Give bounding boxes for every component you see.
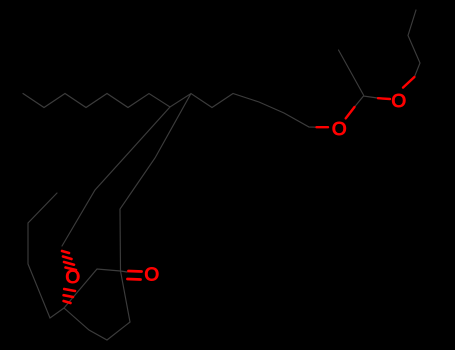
svg-text:O: O <box>332 119 348 141</box>
svg-text:O: O <box>144 264 160 286</box>
wire: ring left edge path <box>28 193 64 318</box>
svg-text:O: O <box>65 267 81 289</box>
wire: ring edge B from chain apex down to junction W and lower vertex <box>120 94 191 323</box>
wire: bond O1 to acetal carbon V1 (carbon half) <box>355 96 378 107</box>
wire: ring bottom vee <box>64 308 130 340</box>
wire: ethyl/methyl branch on acetal carbon V1 <box>339 50 364 95</box>
wire: O1-V1 bond red half <box>346 107 355 118</box>
wire: ketone C=O upper line <box>129 270 142 273</box>
wire: ketone C=O lower line <box>128 278 141 281</box>
wire: alkyl chain zigzag C1-C14 <box>23 94 316 128</box>
hashed stereo bond ring O to V_dn <box>64 289 75 291</box>
wire: ring edge A from chain attachment down to bridgehead V_up <box>62 107 170 246</box>
wire: O2-V2 bond red half <box>403 77 414 88</box>
svg-text:O: O <box>391 91 407 113</box>
wire: bond V_dn to H1 to carbonyl junction <box>64 269 127 308</box>
wire: O2 ethyl group V2-E1-E2 <box>408 10 420 77</box>
wire: C-O1 bond red half <box>317 126 329 128</box>
wire: V1-O2 bond red half <box>378 97 390 100</box>
hashed stereo bond V_up to ring O <box>62 251 69 253</box>
